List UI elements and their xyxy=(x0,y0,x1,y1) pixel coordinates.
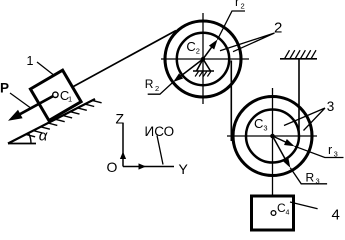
axis Y line xyxy=(123,166,174,168)
svg-text:Y: Y xyxy=(179,161,189,177)
ceiling support line xyxy=(280,58,317,60)
pulley 2 outer circle R2 xyxy=(165,21,241,97)
pulley 2 horizontal center line xyxy=(161,58,249,60)
leader line for R2 xyxy=(148,82,174,94)
inclined surface line xyxy=(8,99,95,144)
svg-text:3: 3 xyxy=(327,99,335,114)
radius arrow R3 xyxy=(273,136,289,165)
block 1 (square on incline) xyxy=(30,70,81,120)
pin support hatching xyxy=(195,72,211,77)
svg-text:R: R xyxy=(145,77,154,91)
radius arrow R2 xyxy=(175,59,203,81)
pulley 3 horizontal center line xyxy=(227,135,317,137)
svg-text:3: 3 xyxy=(263,124,267,133)
radius arrow r3 xyxy=(273,136,293,145)
svg-text:R: R xyxy=(306,171,315,185)
pulley 3 center dot xyxy=(270,134,275,139)
svg-text:ИСО: ИСО xyxy=(145,124,175,139)
svg-text:r: r xyxy=(235,0,239,9)
axis Y arrowhead xyxy=(139,163,147,169)
leader line for R3 xyxy=(290,168,327,184)
pulley 3 vertical line and rope to block 4 xyxy=(272,88,274,196)
leader lines for label 3 xyxy=(284,108,325,131)
svg-text:4: 4 xyxy=(286,210,290,217)
svg-text:2: 2 xyxy=(155,84,159,93)
rope from block 1 to pulley 2 xyxy=(73,31,177,88)
svg-text:O: O xyxy=(107,159,118,175)
svg-text:r: r xyxy=(328,143,332,157)
leader line for label 4 xyxy=(290,202,318,209)
svg-text:1: 1 xyxy=(27,54,34,68)
axis Z line xyxy=(122,123,124,167)
rope pulley 2 to pulley 3 xyxy=(230,61,232,142)
radius arrow r2 xyxy=(203,42,216,59)
horizontal base line at angle vertex xyxy=(8,143,36,145)
pulley 2 inner circle r2 xyxy=(177,33,229,85)
leader line from P label xyxy=(10,93,30,108)
force P arrowhead xyxy=(8,110,23,121)
svg-text:3: 3 xyxy=(316,176,320,185)
angle alpha arc xyxy=(29,133,32,144)
force P arrow shaft xyxy=(19,95,55,115)
svg-text:P: P xyxy=(0,81,9,96)
pulley 3 vertical center line xyxy=(272,97,274,176)
leader line for label 1 xyxy=(37,62,53,75)
svg-text:4: 4 xyxy=(332,207,340,224)
pulley 3 inner circle r3 xyxy=(246,110,299,163)
svg-text:2: 2 xyxy=(274,20,282,37)
block 4 rectangle xyxy=(252,196,294,230)
center circle C1 xyxy=(53,92,58,97)
pulley 3 outer circle R3 xyxy=(233,97,312,176)
ceiling hatching xyxy=(285,50,317,59)
pulley 2 center dot xyxy=(201,57,205,61)
center circle C4 xyxy=(271,211,276,216)
incline hatching xyxy=(26,100,102,136)
svg-text:2: 2 xyxy=(241,2,245,11)
rope ceiling to pulley 3 xyxy=(298,59,300,136)
pulley 2 vertical center line xyxy=(202,13,204,104)
leader line from ISO label xyxy=(157,136,163,165)
svg-text:C: C xyxy=(186,39,195,54)
pin support base line xyxy=(193,70,214,72)
axis Z arrowhead xyxy=(120,152,126,160)
svg-text:3: 3 xyxy=(334,150,338,159)
svg-text:α: α xyxy=(39,128,48,145)
svg-text:2: 2 xyxy=(196,47,200,56)
svg-text:Z: Z xyxy=(116,111,125,127)
svg-text:1: 1 xyxy=(68,95,72,104)
leader line for r3 xyxy=(295,146,344,157)
svg-text:C: C xyxy=(254,116,263,131)
pin support triangle at C2 xyxy=(197,59,211,71)
leader lines for label 2 xyxy=(220,33,275,52)
leader line for r2 xyxy=(218,11,246,40)
